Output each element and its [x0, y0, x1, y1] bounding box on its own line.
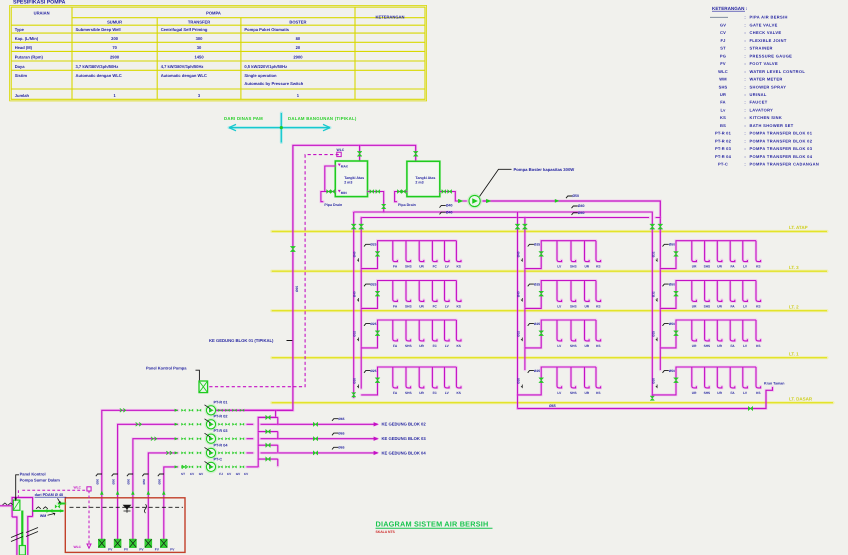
svg-text:Ø40: Ø40 — [517, 251, 521, 257]
svg-text:SHS: SHS — [719, 84, 728, 89]
fixture comb col3 floor4 — [652, 367, 760, 395]
svg-text:FC: FC — [433, 344, 438, 348]
svg-text:Ø25: Ø25 — [370, 369, 376, 373]
svg-text:2 m3: 2 m3 — [415, 181, 423, 185]
svg-text:KETERANGAN :: KETERANGAN : — [712, 6, 748, 11]
svg-text:Ø25: Ø25 — [651, 331, 655, 337]
svg-text:LT. 2: LT. 2 — [789, 305, 799, 310]
svg-text:1450: 1450 — [194, 54, 204, 59]
svg-text:ST: ST — [720, 46, 726, 51]
svg-text:Ø50: Ø50 — [669, 282, 675, 286]
casing break marks — [11, 528, 38, 542]
discharge header with bypass valves — [258, 410, 275, 467]
svg-text:DARI DINAS PAM: DARI DINAS PAM — [224, 116, 263, 121]
svg-text:Ø50: Ø50 — [669, 243, 675, 247]
svg-text:SKALA NTS: SKALA NTS — [376, 530, 396, 534]
svg-text:WATER METER: WATER METER — [750, 77, 783, 82]
svg-text:Ø65: Ø65 — [338, 417, 344, 421]
svg-text:GATE VALVE: GATE VALVE — [750, 22, 778, 27]
svg-text:KE GEDUNG BLOK 02: KE GEDUNG BLOK 02 — [382, 422, 427, 427]
svg-text:PT-R 01: PT-R 01 — [214, 401, 228, 405]
svg-text:KS: KS — [756, 391, 760, 395]
svg-text:FA: FA — [730, 265, 735, 269]
fixture comb col1 floor3 — [361, 320, 461, 348]
pump PT-R 02 — [181, 423, 185, 426]
svg-text:BS: BS — [720, 123, 726, 128]
svg-text:Ø25: Ø25 — [534, 322, 540, 326]
svg-text:PT-R 03: PT-R 03 — [214, 429, 228, 433]
foot valves — [98, 539, 106, 548]
distribution line Ø40 upper — [354, 212, 653, 231]
svg-text:PT-R 03: PT-R 03 — [715, 146, 732, 151]
svg-text::: : — [744, 107, 745, 112]
svg-text:Ø25: Ø25 — [534, 243, 540, 247]
svg-text:FA: FA — [393, 344, 398, 348]
svg-text:2 m3: 2 m3 — [344, 181, 352, 185]
well suction to left — [0, 504, 12, 507]
svg-text:SHOWER SPRAY: SHOWER SPRAY — [750, 84, 787, 89]
svg-text:SHS: SHS — [704, 391, 711, 395]
svg-text:KE GEDUNG BLOK 03: KE GEDUNG BLOK 03 — [382, 436, 427, 441]
pump discharge lines — [247, 423, 378, 426]
svg-text::: : — [744, 22, 745, 27]
svg-text:Ø25: Ø25 — [534, 282, 540, 286]
svg-text:PT-R 02: PT-R 02 — [214, 415, 228, 419]
svg-text:UR: UR — [692, 304, 697, 308]
svg-text:LT. DASAR: LT. DASAR — [789, 397, 813, 402]
svg-text:KS: KS — [720, 115, 726, 120]
svg-text:PIPA AIR BERSIH: PIPA AIR BERSIH — [750, 15, 788, 20]
svg-text:UR: UR — [717, 344, 722, 348]
PDAM inlet (green pipe) — [33, 510, 64, 512]
pump spec table — [10, 6, 427, 101]
svg-text:KS: KS — [756, 344, 760, 348]
svg-text:Panel Kontrol: Panel Kontrol — [20, 472, 46, 477]
tank1 outlet to manifold — [368, 192, 384, 213]
svg-text:Automatic dengan WLC: Automatic dengan WLC — [161, 73, 207, 78]
svg-text:PRESSURE GAUGE: PRESSURE GAUGE — [750, 53, 793, 58]
tank2 outlet to boster manifold — [440, 192, 467, 202]
svg-text:Ø65: Ø65 — [549, 404, 556, 408]
svg-text:FA: FA — [720, 100, 726, 105]
svg-text:KETERANGAN: KETERANGAN — [376, 15, 405, 20]
svg-text:DALAM BANGUNAN (TIPIKAL): DALAM BANGUNAN (TIPIKAL) — [288, 116, 357, 121]
floor line LT. DASAR — [272, 401, 833, 404]
riser column3 left — [651, 231, 654, 398]
water level dashed — [70, 506, 184, 508]
svg-text::: : — [744, 38, 745, 43]
svg-text:LAVATORY: LAVATORY — [750, 107, 774, 112]
svg-text:4,7 kW/380V/3ph/50Hz: 4,7 kW/380V/3ph/50Hz — [161, 64, 204, 69]
svg-text:SHS: SHS — [570, 265, 577, 269]
svg-text:Ø65: Ø65 — [338, 431, 344, 435]
submersible pump riser (green) — [21, 511, 23, 546]
main riser from transfer pumps to roof tanks — [211, 145, 416, 410]
svg-text:Ø40: Ø40 — [353, 291, 357, 297]
svg-text:Ø20: Ø20 — [353, 378, 357, 384]
svg-text:WLC: WLC — [74, 486, 82, 490]
well control panel — [13, 500, 20, 510]
floor line LT. 1 — [272, 356, 827, 359]
svg-text:SHS: SHS — [570, 391, 577, 395]
svg-text:70: 70 — [112, 45, 117, 50]
svg-text:FA: FA — [730, 304, 735, 308]
riser column1 right — [360, 218, 363, 389]
svg-text:300: 300 — [196, 36, 204, 41]
svg-text:Pompa Paket Otomatis: Pompa Paket Otomatis — [244, 27, 289, 32]
fixture comb col2 floor1 — [525, 241, 601, 269]
svg-text:UR: UR — [692, 391, 697, 395]
svg-text:Pompa Sumur Dalam: Pompa Sumur Dalam — [20, 478, 61, 483]
svg-text::: : — [744, 77, 745, 82]
svg-text:PT-R 04: PT-R 04 — [715, 154, 732, 159]
pump PT-R 04 — [181, 451, 185, 454]
svg-text:WM: WM — [719, 77, 727, 82]
svg-text:SHS: SHS — [405, 391, 412, 395]
svg-text:KS: KS — [756, 265, 760, 269]
svg-text:Ø40: Ø40 — [446, 204, 453, 208]
svg-text:Ø40: Ø40 — [353, 251, 357, 257]
svg-text:UR: UR — [419, 265, 424, 269]
svg-text::: : — [744, 138, 745, 143]
svg-text:FA: FA — [393, 391, 398, 395]
svg-text:Ø40: Ø40 — [446, 210, 453, 214]
svg-text:Sistim: Sistim — [15, 73, 28, 78]
riser column2 left — [516, 212, 519, 409]
svg-text:CV: CV — [720, 30, 726, 35]
svg-text:URINAL: URINAL — [750, 92, 767, 97]
svg-text:Ø20: Ø20 — [517, 378, 521, 384]
svg-text:SHS: SHS — [405, 304, 412, 308]
svg-text::: : — [744, 154, 745, 159]
svg-text:Automatic dengan WLC: Automatic dengan WLC — [76, 73, 122, 78]
svg-text:KE GEDUNG BLOK 04: KE GEDUNG BLOK 04 — [382, 450, 427, 455]
svg-text:SHS: SHS — [570, 304, 577, 308]
svg-text:2900: 2900 — [110, 54, 120, 59]
deep well casing — [12, 498, 32, 555]
arrows to other blocks — [374, 422, 379, 426]
svg-text:Panel Kontrol Pompa: Panel Kontrol Pompa — [146, 365, 187, 370]
floor line LT. ATAP — [272, 230, 827, 233]
svg-text:PT-R 01: PT-R 01 — [715, 131, 732, 136]
svg-text:Ø50: Ø50 — [142, 478, 146, 484]
svg-text::: : — [744, 131, 745, 136]
svg-text::: : — [744, 100, 745, 105]
node KE GEDUNG BLOK 01 leader — [287, 340, 293, 342]
boster pump label leader — [480, 169, 512, 196]
svg-text::: : — [744, 53, 745, 58]
fixture comb col3 floor3 — [660, 320, 760, 348]
svg-text:SHS: SHS — [704, 304, 711, 308]
svg-text:Ø32: Ø32 — [651, 251, 655, 257]
tank2 drain piping — [395, 192, 407, 202]
svg-text:FJ: FJ — [219, 472, 223, 476]
svg-text:SPESIFIKASI POMPA: SPESIFIKASI POMPA — [13, 0, 66, 6]
svg-text:POMPA TRANSFER BLOK 04: POMPA TRANSFER BLOK 04 — [750, 154, 813, 159]
svg-text:Ø50: Ø50 — [127, 478, 131, 484]
svg-text:Ø20: Ø20 — [651, 378, 655, 384]
svg-text:UR: UR — [419, 344, 424, 348]
svg-text:URAIAN: URAIAN — [34, 11, 50, 16]
svg-text:Ø25: Ø25 — [370, 322, 376, 326]
svg-text:80: 80 — [296, 36, 301, 41]
svg-text:Pipa Drain: Pipa Drain — [324, 203, 342, 207]
svg-text:Ø25: Ø25 — [370, 243, 376, 247]
svg-text:Ø32: Ø32 — [651, 291, 655, 297]
svg-text:UR: UR — [584, 391, 589, 395]
tank1 drain piping — [321, 166, 335, 202]
svg-text:PT-R 02: PT-R 02 — [715, 138, 732, 143]
svg-text:Lv: Lv — [720, 107, 726, 112]
svg-text:LT. 1: LT. 1 — [789, 352, 799, 357]
svg-text:Tangki Atas: Tangki Atas — [344, 176, 364, 180]
fixture comb col1 floor1 — [361, 241, 461, 269]
svg-text:dari PDAM Ø 40: dari PDAM Ø 40 — [35, 493, 63, 497]
svg-text:FLEXIBLE JOINT: FLEXIBLE JOINT — [750, 38, 787, 43]
svg-text:KE GEDUNG BLOK 01 (TIPIKAL): KE GEDUNG BLOK 01 (TIPIKAL) — [209, 338, 274, 343]
svg-text:FC: FC — [433, 391, 438, 395]
svg-text:UR: UR — [717, 391, 722, 395]
svg-text::: : — [744, 30, 745, 35]
svg-text:UR: UR — [584, 304, 589, 308]
svg-text:ST: ST — [181, 472, 185, 476]
svg-text:GV: GV — [720, 22, 726, 27]
svg-text:KS: KS — [456, 391, 460, 395]
svg-text::: : — [744, 69, 745, 74]
svg-text:SHS: SHS — [405, 265, 412, 269]
svg-text::: : — [744, 146, 745, 151]
svg-text:Pompa Boster kapasitas 300W: Pompa Boster kapasitas 300W — [514, 167, 575, 172]
riser column3 right — [659, 231, 662, 370]
svg-text:PT-C: PT-C — [214, 457, 223, 461]
svg-text:Tangki Atas: Tangki Atas — [415, 176, 435, 180]
svg-text::: : — [744, 123, 745, 128]
svg-text:UR: UR — [584, 344, 589, 348]
svg-text:Daya: Daya — [15, 64, 26, 69]
svg-text:DIAGRAM SISTEM AIR BERSIH: DIAGRAM SISTEM AIR BERSIH — [376, 519, 489, 528]
svg-text:KS: KS — [456, 265, 460, 269]
svg-text:Ø50: Ø50 — [669, 322, 675, 326]
svg-text:SHS: SHS — [704, 344, 711, 348]
tank1 fill stub — [358, 145, 361, 161]
svg-text:Kran Taman: Kran Taman — [764, 382, 785, 386]
reservoir WLC float — [88, 491, 90, 546]
svg-text:KS: KS — [596, 391, 600, 395]
svg-text:POMPA: POMPA — [206, 11, 221, 16]
svg-text:KS: KS — [456, 344, 460, 348]
svg-text::: : — [744, 92, 745, 97]
svg-text:WLC: WLC — [74, 545, 82, 549]
svg-text:20: 20 — [296, 45, 301, 50]
svg-text:Ø50: Ø50 — [669, 369, 675, 373]
svg-text:KS: KS — [596, 265, 600, 269]
ground hatch marks — [36, 507, 48, 509]
svg-text:0,5 kW/220V/1ph/50Hz: 0,5 kW/220V/1ph/50Hz — [244, 64, 287, 69]
pump PT-R 03 — [181, 437, 185, 440]
svg-text:Pipa Drain: Pipa Drain — [398, 203, 416, 207]
svg-text:3,7 kW/380V/3ph/50Hz: 3,7 kW/380V/3ph/50Hz — [76, 64, 119, 69]
svg-text:FJ: FJ — [720, 38, 725, 43]
distribution line Ø40 lower — [361, 216, 660, 219]
WLC signal to well panel — [22, 489, 87, 491]
svg-text:UR: UR — [584, 265, 589, 269]
fixture comb col1 floor4 — [361, 367, 461, 395]
boster suction/discharge line — [483, 201, 661, 231]
svg-text:FAUCET: FAUCET — [750, 100, 768, 105]
fixture comb col1 floor2 — [361, 281, 461, 309]
svg-text:Single operation: Single operation — [244, 73, 277, 78]
svg-text:Ø50: Ø50 — [158, 478, 162, 484]
svg-text:FA: FA — [393, 304, 398, 308]
svg-text:PT-C: PT-C — [718, 162, 728, 167]
svg-text:MAX: MAX — [341, 164, 349, 168]
svg-text:FC: FC — [433, 265, 438, 269]
svg-text:LT. ATAP: LT. ATAP — [789, 225, 808, 230]
svg-text:SUMUR: SUMUR — [107, 20, 122, 25]
svg-text:Ø25: Ø25 — [370, 282, 376, 286]
riser bottom valves — [352, 393, 356, 397]
svg-text:Ø40: Ø40 — [578, 211, 585, 215]
ground distribution line Ø65 — [518, 387, 773, 409]
pump suction pipes from reservoir — [102, 410, 178, 541]
svg-text:Automatic by Pressure Switch: Automatic by Pressure Switch — [244, 81, 303, 86]
svg-text:WLC: WLC — [337, 148, 345, 152]
fixture comb col3 floor2 — [660, 281, 760, 309]
svg-text::: : — [744, 84, 745, 89]
fixture comb col2 floor3 — [525, 320, 601, 348]
svg-text:Head (M): Head (M) — [15, 45, 33, 50]
riser column2 right — [524, 218, 527, 371]
riser column1 left — [352, 212, 355, 398]
svg-text:SHS: SHS — [570, 344, 577, 348]
svg-text:WM: WM — [40, 514, 46, 518]
svg-text:KITCHEN SINK: KITCHEN SINK — [750, 115, 783, 120]
svg-text:CHECK VALVE: CHECK VALVE — [750, 30, 782, 35]
boster pump — [468, 194, 481, 207]
boundary marker dinas PAM / dalam bangunan — [280, 113, 283, 143]
svg-text:Ø40: Ø40 — [517, 291, 521, 297]
svg-text:Putaran (Rpm): Putaran (Rpm) — [15, 54, 44, 59]
pump PT-C — [181, 465, 185, 468]
roof tank 1 — [335, 161, 367, 197]
svg-text:WLC: WLC — [718, 69, 728, 74]
svg-text:Ø50: Ø50 — [572, 194, 579, 198]
svg-text:FOOT VALVE: FOOT VALVE — [750, 61, 778, 66]
svg-text:FA: FA — [393, 265, 398, 269]
svg-text:STRAINER: STRAINER — [750, 46, 773, 51]
svg-text:KS: KS — [456, 304, 460, 308]
floor line LT. 2 — [272, 309, 827, 312]
svg-text:FC: FC — [433, 304, 438, 308]
svg-text::: : — [744, 61, 745, 66]
svg-text:BOSTER: BOSTER — [289, 20, 306, 25]
svg-text::: : — [744, 46, 745, 51]
svg-text:POMPA TRANSFER CADANGAN: POMPA TRANSFER CADANGAN — [750, 162, 820, 167]
WLC signal dashed line tank to panel — [208, 155, 339, 387]
svg-text:UR: UR — [717, 304, 722, 308]
svg-text:POMPA TRANSFER BLOK 02: POMPA TRANSFER BLOK 02 — [750, 138, 813, 143]
svg-text:Ø50: Ø50 — [96, 478, 100, 484]
fixture comb col2 floor4 — [518, 367, 601, 395]
svg-text:2900: 2900 — [293, 54, 303, 59]
svg-text:Ø65: Ø65 — [295, 286, 299, 292]
svg-text:UR: UR — [692, 344, 697, 348]
pump PT-R 01 — [181, 409, 185, 412]
fixture comb col2 floor2 — [525, 281, 601, 309]
svg-text:KS: KS — [596, 304, 600, 308]
svg-text:KS: KS — [596, 344, 600, 348]
svg-text:SHS: SHS — [405, 344, 412, 348]
roof tank 2 — [407, 161, 440, 196]
svg-text:UR: UR — [717, 265, 722, 269]
svg-text:Centrifugal Self Priming: Centrifugal Self Priming — [161, 27, 208, 32]
svg-text:POMPA TRANSFER BLOK 03: POMPA TRANSFER BLOK 03 — [750, 146, 813, 151]
svg-text:WATER LEVEL CONTROL: WATER LEVEL CONTROL — [750, 69, 806, 74]
svg-text:FV: FV — [720, 61, 726, 66]
svg-text:Jumlah: Jumlah — [15, 93, 30, 98]
svg-text::: : — [744, 15, 745, 20]
svg-text:TRANSFER: TRANSFER — [188, 20, 210, 25]
svg-text:Kap. (L/Min): Kap. (L/Min) — [15, 36, 39, 41]
svg-text:KS: KS — [756, 304, 760, 308]
svg-text:FA: FA — [730, 344, 735, 348]
svg-text:Type: Type — [15, 27, 25, 32]
svg-text:Ø32: Ø32 — [517, 331, 521, 337]
svg-text:LT. 3: LT. 3 — [789, 265, 799, 270]
valve on main riser — [290, 246, 295, 251]
ground reservoir tank — [65, 498, 185, 553]
svg-text:Ø40: Ø40 — [578, 204, 585, 208]
floor line LT. 3 — [272, 270, 827, 273]
svg-text:30: 30 — [197, 45, 202, 50]
svg-text:UR: UR — [720, 92, 726, 97]
transfer pump control panel — [199, 381, 208, 393]
water level symbol — [124, 505, 131, 509]
svg-text:FA: FA — [730, 391, 735, 395]
svg-text:UR: UR — [419, 391, 424, 395]
svg-text::: : — [744, 115, 745, 120]
svg-text:200: 200 — [111, 36, 119, 41]
svg-text:PT-R 04: PT-R 04 — [214, 443, 229, 447]
svg-text:BATH SHOWER SET: BATH SHOWER SET — [750, 123, 794, 128]
svg-text:Ø65: Ø65 — [338, 446, 344, 450]
svg-text:Ø25: Ø25 — [534, 369, 540, 373]
riser isolation valves above roof line — [351, 224, 356, 229]
svg-text:Ø50: Ø50 — [111, 478, 115, 484]
svg-text:PG: PG — [720, 53, 726, 58]
svg-text:POMPA TRANSFER BLOK 01: POMPA TRANSFER BLOK 01 — [750, 131, 813, 136]
svg-text:Ø32: Ø32 — [353, 331, 357, 337]
fixture comb col3 floor1 — [660, 241, 760, 269]
svg-text::: : — [744, 162, 745, 167]
svg-text:UR: UR — [692, 265, 697, 269]
svg-text:UR: UR — [419, 304, 424, 308]
svg-text:MIN: MIN — [341, 191, 348, 195]
svg-text:Submersible Deep Well: Submersible Deep Well — [76, 27, 121, 32]
svg-text:SHS: SHS — [704, 265, 711, 269]
